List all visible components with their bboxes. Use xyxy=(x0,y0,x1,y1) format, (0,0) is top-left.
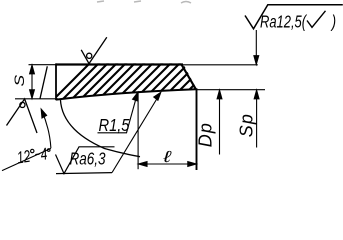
part left edge xyxy=(55,63,57,100)
svg-text:Sp: Sp xyxy=(237,113,257,137)
dimension Sp arrow line xyxy=(254,90,259,147)
dimension l line with arrows xyxy=(138,162,197,167)
svg-text:Ra12,5(: Ra12,5( xyxy=(260,13,308,33)
top edge extension line left xyxy=(29,64,57,66)
dimension Dp arrow line xyxy=(217,90,222,154)
svg-text:Ra6,3: Ra6,3 xyxy=(70,150,106,169)
part right edge / extension line for l and Dp xyxy=(196,88,198,170)
extension line for Dp Sp xyxy=(197,89,265,91)
part top edge xyxy=(56,63,183,65)
faint cropped marks at top xyxy=(97,1,191,3)
svg-text:4: 4 xyxy=(39,145,48,164)
top edge extension line right xyxy=(183,64,258,66)
angle value text 12deg-4deg xyxy=(16,145,52,168)
svg-text:S: S xyxy=(12,74,27,86)
leader of Ra6,3 with arrow to bottom face xyxy=(112,92,161,172)
svg-text:R1,5: R1,5 xyxy=(99,115,131,135)
svg-text:ℓ: ℓ xyxy=(162,148,171,166)
dimension S line with arrows xyxy=(30,65,35,98)
ring end line at 12 deg xyxy=(40,66,47,98)
dimension l extension line left xyxy=(137,93,139,169)
radius leader with arrow xyxy=(127,93,138,133)
svg-text:Dp: Dp xyxy=(196,122,216,147)
roughness symbol Ra6,3 with shelf xyxy=(56,147,115,174)
leader of Ra12,5 with down arrow xyxy=(254,30,259,64)
surface symbol (no material removal) at bottom left xyxy=(7,99,38,133)
surface symbol (no material removal) on top face xyxy=(81,37,107,63)
dimension S extension line bottom left xyxy=(15,98,58,100)
ring inner surface arc xyxy=(60,99,140,156)
roughness symbol Ra12,5 with bar xyxy=(245,5,343,29)
svg-text:): ) xyxy=(330,13,336,33)
svg-text:12: 12 xyxy=(16,148,32,168)
check mark in parentheses xyxy=(307,11,326,28)
part bottom tapered edge xyxy=(56,89,196,99)
angle label 12deg-4 with reference line xyxy=(2,148,51,170)
angle leader curve with arrow xyxy=(41,109,51,148)
hatching of section xyxy=(41,47,259,112)
part chamfer edge xyxy=(182,65,197,90)
